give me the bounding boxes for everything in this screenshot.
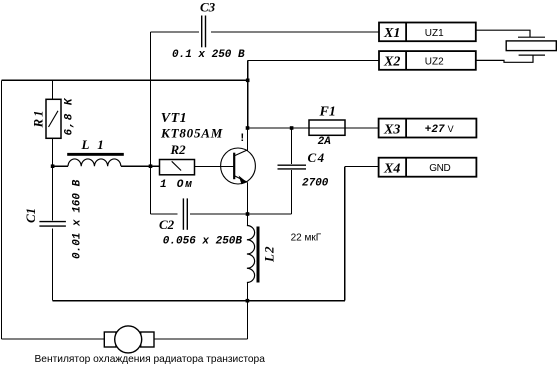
node L2/bottom-rail junction xyxy=(246,299,250,303)
wire bottom rail xyxy=(53,300,345,302)
wire R1 top lead xyxy=(52,80,54,99)
svg-text:Вентилятор охлаждения радиатор: Вентилятор охлаждения радиатора транзист… xyxy=(35,354,266,365)
capacitor C4 xyxy=(278,165,307,169)
svg-text:L2: L2 xyxy=(262,246,277,263)
wire L1 left lead xyxy=(53,165,68,167)
connector X1 xyxy=(379,23,476,42)
node junction dots xyxy=(51,79,294,303)
connector X2 xyxy=(379,51,476,70)
wire emitter node down to L2 xyxy=(246,214,248,226)
wire C3 right plate to X1 xyxy=(211,31,379,33)
svg-text:0.056 x 250В: 0.056 x 250В xyxy=(163,236,243,248)
wire X4 horizontal xyxy=(345,166,379,168)
wire emitter vertical to bottom of inner box xyxy=(247,183,249,215)
capacitor C3 xyxy=(202,16,206,48)
svg-text:UZ1: UZ1 xyxy=(425,28,444,39)
svg-text:X2: X2 xyxy=(383,55,400,70)
wire L2 bottom lead to motor rail xyxy=(246,283,248,340)
capacitor C1 xyxy=(39,222,66,227)
wire X2 drop vertical to collector node xyxy=(247,60,249,128)
transistor VT1 xyxy=(221,148,256,184)
node X2/left-rail junction xyxy=(246,79,250,83)
svg-text:F1: F1 xyxy=(319,105,336,120)
svg-text:2A: 2A xyxy=(318,136,332,148)
node emitter/bottom junction xyxy=(246,212,250,216)
wire long left rail y=80 xyxy=(2,79,248,81)
battery bottom plate xyxy=(519,54,545,56)
node collector junction xyxy=(246,126,250,130)
inductor L2 xyxy=(257,227,260,283)
wire outer left vertical xyxy=(1,80,3,339)
wire R1 bottom lead to L1 node xyxy=(52,138,54,220)
battery top plate xyxy=(518,36,545,38)
wire C4 top lead xyxy=(291,128,293,164)
wire X2 horizontal xyxy=(248,59,379,61)
node C4 top junction xyxy=(290,126,294,130)
svg-text:22 мкГ: 22 мкГ xyxy=(291,233,322,244)
svg-text:0.01 x 160 В: 0.01 x 160 В xyxy=(72,179,84,259)
node L1/inner-box-left junction xyxy=(149,164,153,168)
wire R2 to transistor base xyxy=(195,166,235,168)
svg-text:X4: X4 xyxy=(383,162,400,177)
svg-text:C3: C3 xyxy=(200,0,216,15)
svg-text:1 Ом: 1 Ом xyxy=(160,179,194,191)
wire collector vertical into transistor xyxy=(247,128,249,151)
svg-text:C1: C1 xyxy=(23,208,38,223)
svg-text:X3: X3 xyxy=(383,123,400,138)
wire inner box bottom left segment xyxy=(151,213,178,215)
svg-text:L 1: L 1 xyxy=(81,137,107,152)
wire collector node to F1 to X3 xyxy=(248,127,379,129)
connector X3 xyxy=(379,119,477,138)
svg-text:X1: X1 xyxy=(383,26,400,41)
wire inner box left vertical xyxy=(150,32,152,214)
svg-text:!: ! xyxy=(239,133,246,145)
svg-text:R1: R1 xyxy=(31,108,46,128)
wire X2 to battery bottom xyxy=(476,55,533,62)
wire L1 to R2 xyxy=(121,165,160,167)
wire inner box bottom right segment xyxy=(190,213,292,215)
wire C4 bottom lead xyxy=(291,170,293,214)
wire motor rail left xyxy=(2,338,105,340)
svg-text:R2: R2 xyxy=(170,142,187,157)
svg-text:UZ2: UZ2 xyxy=(425,57,444,68)
svg-text:6,8 К: 6,8 К xyxy=(64,97,76,135)
battery body xyxy=(506,41,556,51)
wire C1 bottom lead xyxy=(52,229,54,301)
svg-text:2700: 2700 xyxy=(302,178,329,190)
resistor R2 xyxy=(160,160,195,175)
battery / accumulator GB xyxy=(476,30,557,62)
svg-text:C2: C2 xyxy=(159,217,175,232)
svg-text:КТ805АМ: КТ805АМ xyxy=(160,126,223,141)
svg-text:VT1: VT1 xyxy=(161,111,187,126)
connector X4 xyxy=(379,158,477,177)
capacitor C2 xyxy=(183,198,187,229)
wire motor rail right xyxy=(154,338,247,340)
wire X1 to battery top xyxy=(476,30,530,37)
wire top rail from inner box to C3 left plate xyxy=(151,31,200,33)
resistor R1 xyxy=(46,99,61,138)
wire right vertical GND xyxy=(344,167,346,301)
inductor L1 xyxy=(67,153,124,156)
svg-text:0.1 x 250 В: 0.1 x 250 В xyxy=(172,49,245,61)
fuse F1 xyxy=(309,120,345,135)
svg-text:C4: C4 xyxy=(308,150,326,165)
node R1/L1/C1 junction xyxy=(51,164,55,168)
motor / fan M1 xyxy=(104,326,154,353)
svg-text:GND: GND xyxy=(429,163,450,174)
